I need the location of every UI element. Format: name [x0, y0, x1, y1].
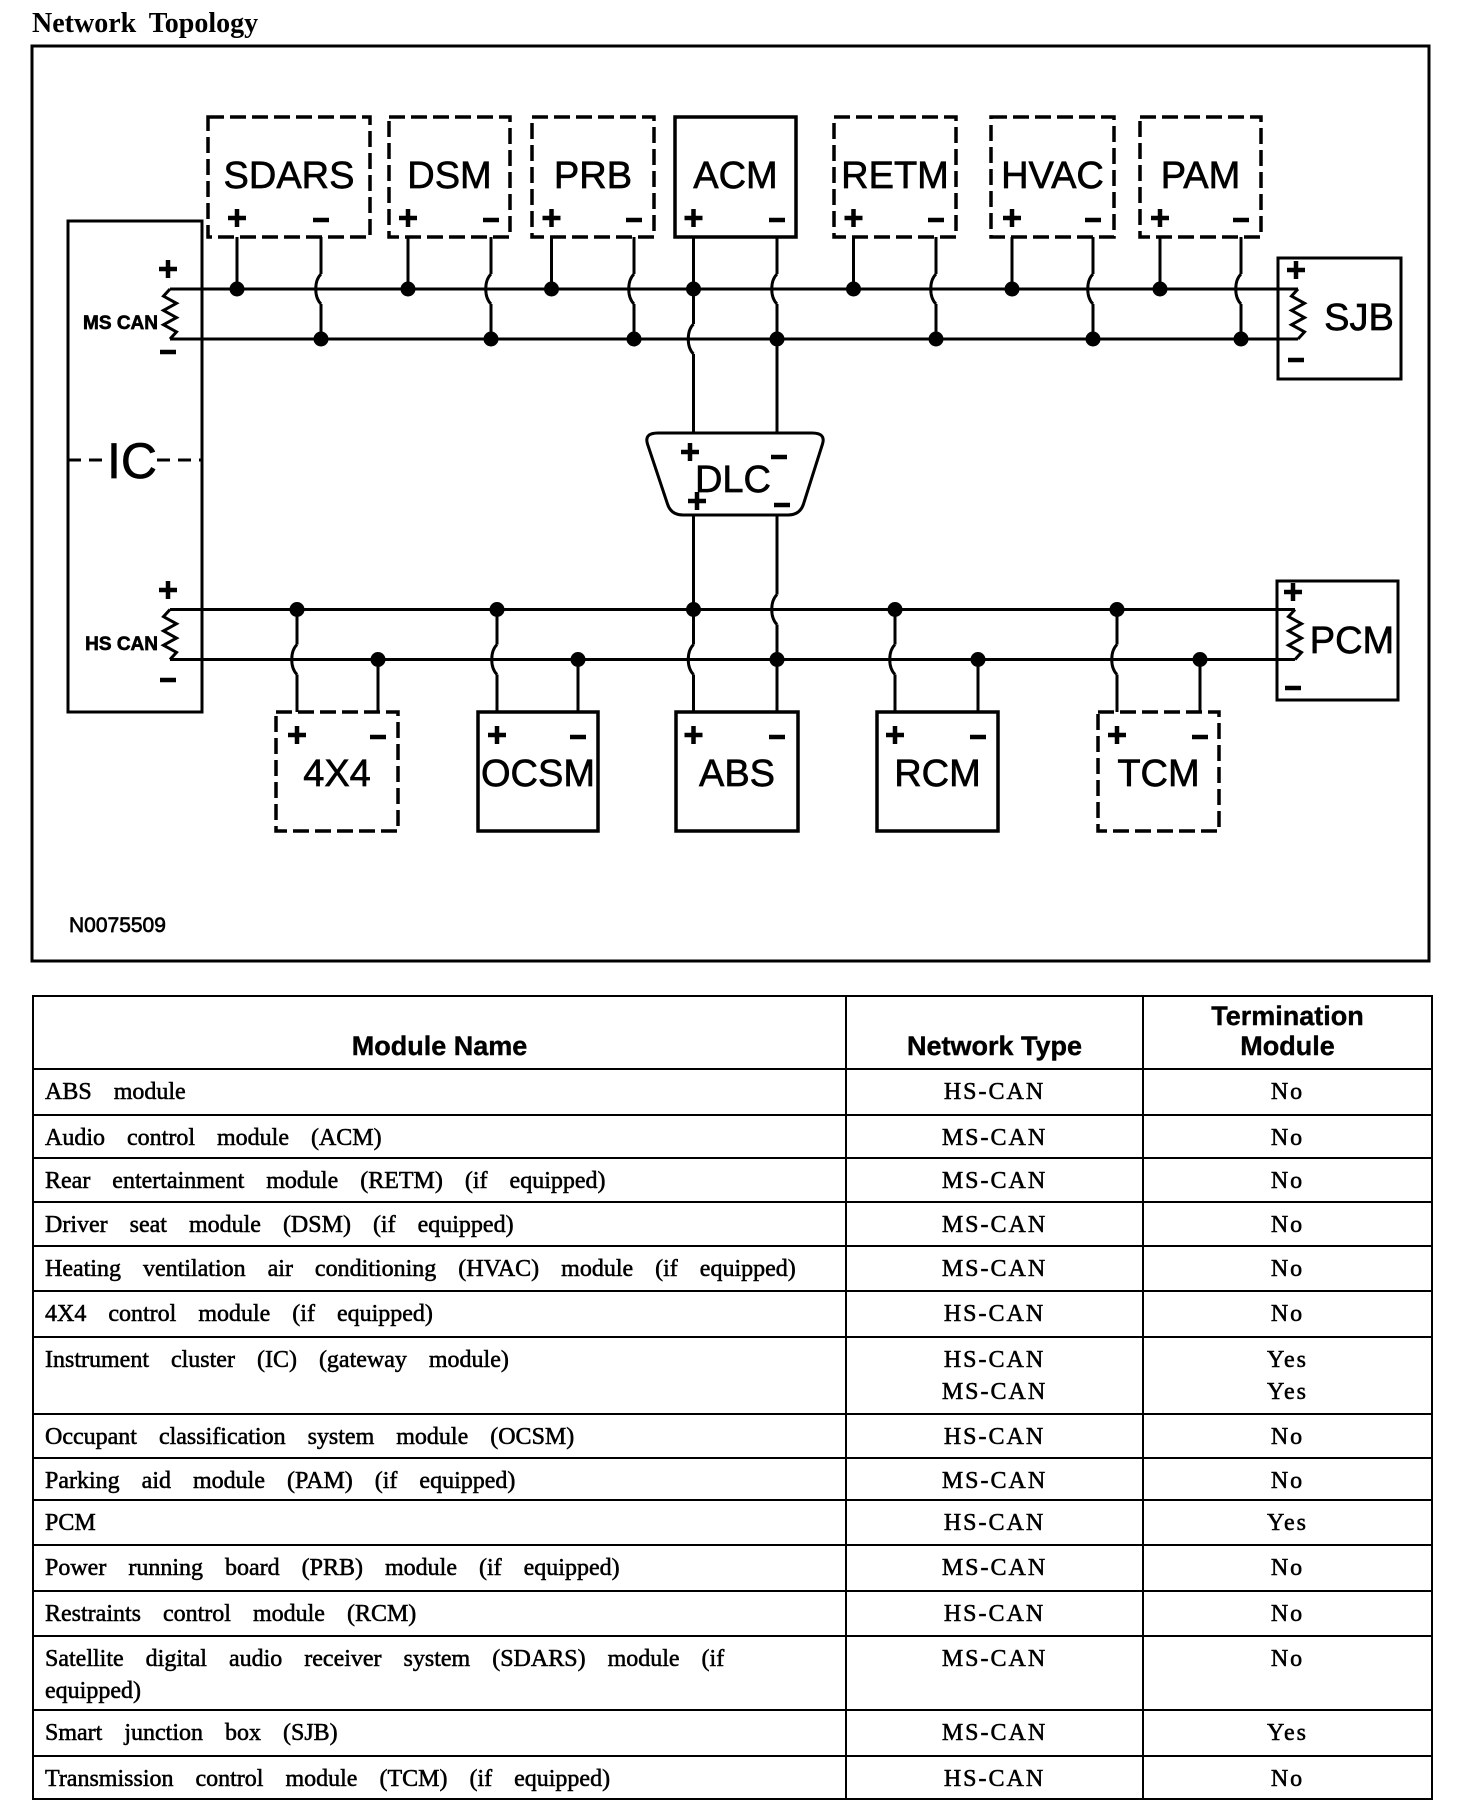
svg-text:OCSM: OCSM — [481, 753, 595, 795]
svg-text:SJB: SJB — [1324, 297, 1394, 339]
svg-text:ABS: ABS — [699, 753, 775, 795]
svg-text:DLC: DLC — [695, 459, 771, 501]
svg-text:MS CAN: MS CAN — [83, 313, 158, 334]
svg-text:TCM: TCM — [1117, 753, 1199, 795]
svg-text:HVAC: HVAC — [1001, 155, 1104, 197]
svg-text:PCM: PCM — [1310, 620, 1394, 662]
svg-text:PAM: PAM — [1161, 155, 1241, 197]
svg-text:4X4: 4X4 — [303, 753, 371, 795]
svg-text:DSM: DSM — [407, 155, 491, 197]
svg-text:N0075509: N0075509 — [69, 914, 166, 937]
svg-text:PRB: PRB — [554, 155, 632, 197]
svg-text:RETM: RETM — [841, 155, 949, 197]
svg-text:RCM: RCM — [894, 753, 981, 795]
svg-text:HS CAN: HS CAN — [85, 634, 158, 655]
svg-text:ACM: ACM — [693, 155, 777, 197]
svg-text:IC: IC — [107, 433, 157, 489]
svg-text:SDARS: SDARS — [224, 155, 355, 197]
